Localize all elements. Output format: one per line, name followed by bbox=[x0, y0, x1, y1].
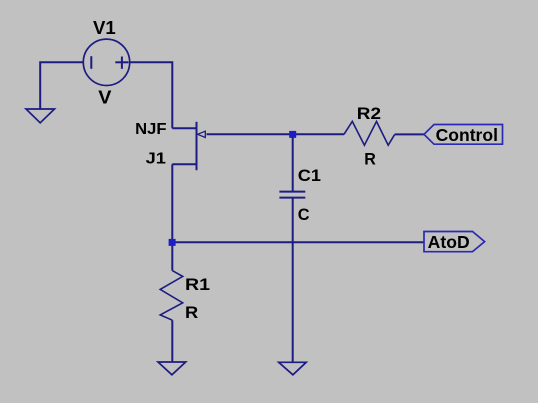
wire JFET source down to node A bbox=[171, 164, 173, 242]
svg-text:J1: J1 bbox=[146, 151, 166, 168]
junction (gate node) bbox=[289, 131, 296, 138]
wire V1 left to ground bbox=[40, 62, 83, 109]
wire C1 bottom to ground (crosses AtoD wire) bbox=[292, 198, 294, 363]
svg-text:R2: R2 bbox=[357, 104, 381, 123]
wire gate to junction to R2 bbox=[207, 133, 345, 135]
resistor R2 bbox=[344, 121, 395, 145]
svg-text:V: V bbox=[98, 88, 111, 108]
transistor J1 (NJF) bbox=[172, 122, 205, 170]
svg-text:Control: Control bbox=[436, 125, 498, 145]
voltage source V1 bbox=[83, 39, 129, 85]
ground (under R1) bbox=[158, 362, 186, 375]
resistor R1 bbox=[160, 271, 183, 321]
svg-text:R1: R1 bbox=[185, 275, 210, 294]
ground (under V1) bbox=[26, 109, 55, 123]
capacitor C1 bbox=[279, 192, 305, 198]
wire node A down to R1 bbox=[171, 242, 173, 270]
wire junction down to C1 bbox=[292, 134, 294, 191]
junction node A bbox=[169, 239, 176, 246]
wire V1 right to JFET drain bbox=[130, 62, 173, 128]
svg-text:C: C bbox=[298, 205, 310, 224]
svg-text:R: R bbox=[185, 303, 198, 322]
ground (under C1) bbox=[279, 362, 307, 375]
node A wire to AtoD flag bbox=[172, 241, 424, 243]
svg-text:AtoD: AtoD bbox=[428, 232, 470, 252]
svg-text:C1: C1 bbox=[298, 166, 321, 185]
wire R1 to ground bbox=[171, 320, 173, 362]
port flag AtoD bbox=[424, 232, 485, 252]
port flag Control bbox=[424, 125, 503, 145]
svg-text:R: R bbox=[364, 150, 376, 169]
svg-text:NJF: NJF bbox=[135, 121, 167, 138]
svg-text:V1: V1 bbox=[93, 18, 116, 38]
wire R2 to Control flag bbox=[395, 133, 424, 135]
